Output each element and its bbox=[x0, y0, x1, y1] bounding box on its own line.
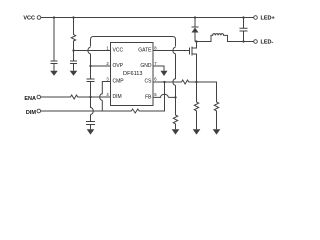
svg-text:8: 8 bbox=[154, 46, 157, 51]
svg-text:VCC: VCC bbox=[113, 48, 124, 54]
svg-text:GND: GND bbox=[140, 63, 152, 69]
svg-text:7: 7 bbox=[154, 61, 157, 66]
svg-text:3: 3 bbox=[106, 77, 109, 82]
svg-text:DIM: DIM bbox=[113, 94, 122, 100]
svg-text:CMP: CMP bbox=[113, 79, 125, 85]
svg-text:2: 2 bbox=[106, 61, 109, 66]
svg-text:LED+: LED+ bbox=[261, 16, 275, 22]
svg-text:OVP: OVP bbox=[113, 63, 124, 69]
svg-text:6: 6 bbox=[154, 77, 157, 82]
svg-text:4: 4 bbox=[106, 92, 109, 97]
svg-text:GATE: GATE bbox=[138, 48, 152, 54]
svg-text:1: 1 bbox=[106, 46, 109, 51]
svg-text:LED-: LED- bbox=[261, 40, 274, 46]
svg-text:5: 5 bbox=[154, 92, 157, 97]
svg-text:ENA: ENA bbox=[24, 96, 36, 102]
svg-text:DF6113: DF6113 bbox=[123, 71, 143, 77]
svg-text:FB: FB bbox=[145, 94, 152, 100]
svg-text:DIM: DIM bbox=[26, 110, 37, 116]
svg-text:VCC: VCC bbox=[23, 16, 35, 22]
svg-text:CS: CS bbox=[145, 79, 153, 85]
